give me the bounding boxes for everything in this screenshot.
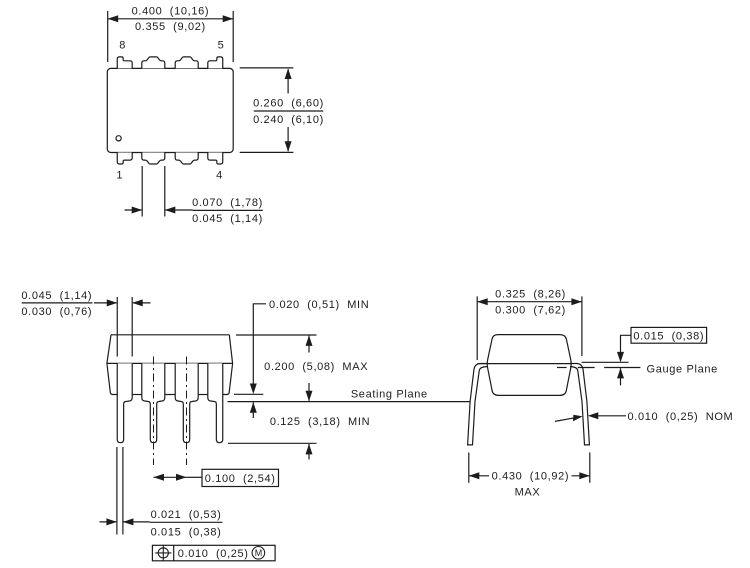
lead 4 (side view) xyxy=(208,363,223,442)
0.430 right arrow xyxy=(579,472,590,479)
svg-text:8: 8 xyxy=(119,40,126,52)
pin 8 (top view) xyxy=(117,57,132,69)
svg-text:0.010 (0,25): 0.010 (0,25) xyxy=(178,548,249,560)
0.021 left arrow leader xyxy=(100,521,117,523)
dim 0.070/0.045 right extension line xyxy=(164,166,166,217)
0.021 right arrow leader xyxy=(124,521,150,523)
svg-text:MAX: MAX xyxy=(515,487,541,499)
0.200 down arrow / 0.125 top arrow xyxy=(306,391,313,402)
dim 0.260 up arrow xyxy=(285,69,292,80)
pin 2 (top view) xyxy=(142,153,165,165)
pin 4 (top view) xyxy=(208,153,223,165)
side body bottom edge segment 1 xyxy=(132,394,142,396)
dim 0.260/0.240 dimension line lower xyxy=(287,127,289,151)
0.325 right arrow xyxy=(571,298,582,305)
dim 0.260/0.240 bottom extension line xyxy=(240,151,294,153)
svg-text:0.021 (0,53): 0.021 (0,53) xyxy=(151,509,222,521)
package body (top view) xyxy=(107,68,233,152)
fraction bar 0.070/0.045 xyxy=(192,209,262,211)
dim 0.430 left extension line xyxy=(468,452,470,482)
lead 2 (side view) xyxy=(142,363,165,442)
dim 0.400 left arrow xyxy=(108,15,119,22)
svg-text:0.015 (0,38): 0.015 (0,38) xyxy=(151,526,222,538)
pin-1 index dot xyxy=(116,136,121,141)
pin 7 (top view) xyxy=(142,57,165,69)
side body mold parting line xyxy=(107,362,233,364)
svg-text:0.260 (6,60): 0.260 (6,60) xyxy=(253,97,324,109)
0.200 dim line lower xyxy=(308,383,310,401)
side body left bevel+bottom corner xyxy=(107,335,117,395)
0.200 top extension line (body top) xyxy=(236,334,317,336)
svg-text:0.070 (1,78): 0.070 (1,78) xyxy=(192,197,263,209)
gauge plane dashed line segment 1 xyxy=(557,367,567,369)
0.200 dim line upper xyxy=(308,336,310,353)
svg-text:5: 5 xyxy=(218,40,225,52)
lead 1 (side view) xyxy=(117,363,132,442)
dim 0.070/0.045 left extension line xyxy=(141,166,143,217)
dim 0.325/0.300 left extension line xyxy=(476,296,478,360)
dim 0.045/0.030 extension line left xyxy=(116,297,118,357)
0.015 down arrow xyxy=(617,352,624,363)
dim 0.430 dim line right xyxy=(572,475,590,477)
0.100 left arrow xyxy=(154,474,165,481)
0.325 left arrow xyxy=(477,298,488,305)
dim 0.045/0.030 extension line right xyxy=(131,297,133,357)
feature control frame divider xyxy=(173,545,175,561)
0.010 right leader xyxy=(590,415,626,417)
0.100 leader to box xyxy=(187,476,203,478)
0.015 up arrow xyxy=(617,368,624,379)
side body top face xyxy=(111,334,229,336)
0.020 leader line xyxy=(253,304,266,389)
svg-text:0.030 (0,76): 0.030 (0,76) xyxy=(21,306,92,318)
position tolerance symbol xyxy=(158,548,168,558)
M-circle (MMC modifier) xyxy=(252,547,265,560)
dim 0.070/0.045 left arrow leader xyxy=(125,209,142,211)
svg-text:1: 1 xyxy=(116,169,123,181)
pin 6 (top view) xyxy=(175,57,198,69)
fraction bar 0.260/0.240 xyxy=(254,110,323,112)
dim 0.400/0.355 right extension line xyxy=(232,11,234,62)
0.020 up arrow tail xyxy=(252,402,254,418)
svg-text:0.045 (1,14): 0.045 (1,14) xyxy=(21,290,92,302)
pin 1 (top view) xyxy=(117,153,132,165)
svg-text:0.100 (2,54): 0.100 (2,54) xyxy=(205,473,276,485)
fraction bar 0.021/0.015 xyxy=(150,521,223,523)
svg-text:0.400 (10,16): 0.400 (10,16) xyxy=(132,6,210,18)
dim 0.400/0.355 left extension line xyxy=(107,11,109,62)
svg-text:0.020 (0,51) MIN: 0.020 (0,51) MIN xyxy=(269,299,369,311)
0.021/0.015 extension line left xyxy=(116,447,118,535)
lead 3 (side view) xyxy=(175,363,198,442)
dim 0.325/0.300 dim line xyxy=(477,301,582,303)
lead 3 centerline xyxy=(186,357,188,466)
0.125 up arrow xyxy=(306,444,313,455)
seating plane line xyxy=(228,401,470,403)
0.010 left-pointing arrow xyxy=(588,412,599,419)
feature control frame box xyxy=(152,545,275,561)
svg-text:0.325 (8,26): 0.325 (8,26) xyxy=(495,289,566,301)
dim 0.260/0.240 dimension line upper xyxy=(287,69,289,93)
dim 0.400 right arrow xyxy=(223,15,234,22)
side body right bevel+bottom corner xyxy=(223,335,233,395)
lead-top extension line for 0.015 xyxy=(582,361,629,363)
pin 3 (top view) xyxy=(175,153,198,165)
0.015 leader line xyxy=(621,335,632,356)
0.015 up arrow tail xyxy=(620,368,622,385)
parting line (end view) xyxy=(478,363,572,365)
0.015 dimension box xyxy=(631,327,707,343)
side body bottom edge segment 2 xyxy=(165,394,175,396)
package body (end view) xyxy=(487,335,571,396)
svg-text:0.430 (10,92): 0.430 (10,92) xyxy=(492,471,570,483)
0.020 up arrow xyxy=(250,402,257,413)
gauge plane dashed line segment 2 xyxy=(578,367,595,369)
dim 0.430 right extension line xyxy=(589,452,591,482)
left lead (end view) xyxy=(468,364,487,445)
svg-text:Seating Plane: Seating Plane xyxy=(351,388,428,400)
dim 0.045/0.030 right arrow leader xyxy=(133,302,151,304)
svg-text:0.010 (0,25) NOM: 0.010 (0,25) NOM xyxy=(628,411,734,423)
lead tip extension line xyxy=(228,442,317,444)
dim 0.260/0.240 top extension line xyxy=(240,67,294,69)
side body bottom edge segment 3 xyxy=(198,394,208,396)
fraction bar 0.045/0.030 xyxy=(22,302,93,304)
0.125 up arrow tail xyxy=(308,444,310,460)
svg-text:Gauge Plane: Gauge Plane xyxy=(647,363,718,375)
0.021/0.015 extension line right xyxy=(122,447,124,535)
dim 0.045/0.030 left arrow leader xyxy=(94,302,117,304)
svg-text:0.015 (0,38): 0.015 (0,38) xyxy=(633,330,704,342)
svg-text:0.125 (3,18) MIN: 0.125 (3,18) MIN xyxy=(270,416,370,428)
svg-text:0.355 (9,02): 0.355 (9,02) xyxy=(135,21,206,33)
0.430 left arrow xyxy=(469,472,480,479)
svg-text:M: M xyxy=(255,548,263,558)
body bottom extension tick for 0.020 xyxy=(234,393,263,395)
0.010 right-pointing arrow xyxy=(573,415,583,422)
svg-text:0.045 (1,14): 0.045 (1,14) xyxy=(192,213,263,225)
0.100 dim line between lead centerlines xyxy=(154,476,187,478)
dim 0.070/0.045 right arrow leader xyxy=(166,209,193,211)
svg-text:0.200 (5,08) MAX: 0.200 (5,08) MAX xyxy=(264,361,368,373)
0.010 left leader xyxy=(555,418,575,422)
svg-text:0.300 (7,62): 0.300 (7,62) xyxy=(495,304,566,316)
dim 0.430 dim line left xyxy=(469,475,489,477)
0.020 down arrow xyxy=(250,384,257,395)
0.100 dimension box xyxy=(202,469,279,486)
svg-text:4: 4 xyxy=(216,169,223,181)
dim 0.260 down arrow xyxy=(285,141,292,152)
right lead (end view) xyxy=(570,364,589,445)
gauge plane dashed line segment 3 xyxy=(604,367,640,369)
0.100 right arrow xyxy=(176,474,187,481)
lead 2 centerline xyxy=(153,357,155,466)
0.200 up arrow xyxy=(306,335,313,346)
dim 0.325/0.300 right extension line xyxy=(581,296,583,356)
dim 0.400/0.355 dimension line xyxy=(108,18,234,20)
svg-text:0.240 (6,10): 0.240 (6,10) xyxy=(253,114,324,126)
pin 5 (top view) xyxy=(208,57,223,69)
